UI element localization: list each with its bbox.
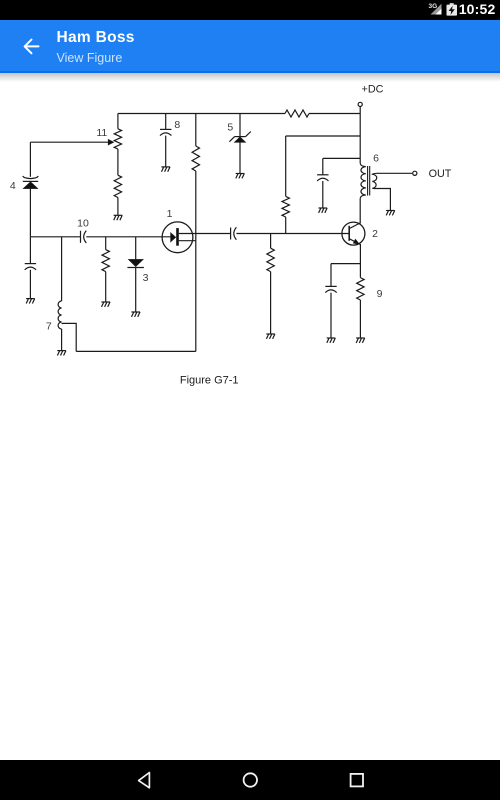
resistor (unlabeled, top rail) (285, 110, 309, 117)
wire top rail left segment (118, 113, 285, 115)
wire bypass cap lead (330, 264, 332, 287)
wire tank cap top lead (322, 158, 324, 174)
wire cap 8 to ground (165, 136, 167, 167)
wire gate line right (86, 236, 171, 238)
capacitor 10 (81, 231, 87, 243)
wire gate line left (30, 236, 80, 238)
ground (tank cap) (319, 208, 328, 213)
ground (pot column) (114, 215, 123, 220)
capacitor (unlabeled, tank) (317, 175, 328, 181)
nav back triangle (139, 773, 150, 788)
transformer 6 primary winding (360, 163, 366, 198)
resistor (unlabeled, source bias) (192, 146, 199, 171)
ground (left column) (26, 299, 35, 304)
wire varactor 4 top lead (29, 142, 31, 177)
wire FET drain lead (179, 233, 231, 235)
wire divider upper bottom lead (285, 217, 287, 234)
wire diode 3 top lead (135, 237, 137, 260)
app bar (0, 20, 500, 72)
resistor (unlabeled, below pot) (114, 175, 121, 197)
resistor (unlabeled, divider upper) (282, 196, 289, 217)
wire FET source lead (179, 240, 196, 242)
wire divider lower to ground (270, 272, 272, 334)
svg-text:1: 1 (167, 208, 173, 220)
wire source column long vertical (195, 171, 197, 351)
node +DC terminal (358, 102, 362, 106)
wire zener 5 to ground (239, 142, 241, 173)
wire cap 8 top lead (165, 114, 167, 130)
node OUT terminal (413, 171, 417, 175)
zener diode 5 (234, 137, 245, 142)
transformer 6 secondary winding (372, 173, 377, 188)
ground (divider lower) (266, 334, 275, 339)
navigation bar (0, 760, 500, 800)
svg-text:11: 11 (96, 127, 107, 139)
svg-text:Figure G7-1: Figure G7-1 (180, 375, 239, 387)
svg-text:6: 6 (373, 153, 379, 165)
wire diode 3 to ground (135, 268, 137, 313)
capacitor (unlabeled, left column) (25, 264, 36, 270)
wire bottom return (76, 350, 196, 352)
wire emitter junction horizontal (331, 263, 360, 265)
ground (resistor 9) (356, 338, 365, 343)
inductor 7 (tapped) (58, 301, 61, 329)
wire bias resistor top lead (105, 237, 107, 250)
svg-text:+DC: +DC (362, 83, 384, 95)
resistor 9 (357, 278, 364, 300)
ground (bypass cap) (327, 338, 336, 343)
wire inductor 7 to ground (61, 329, 63, 351)
ground (cap 8) (161, 167, 170, 172)
wire resistor column top lead (195, 114, 197, 147)
svg-text:9: 9 (377, 288, 383, 300)
wire tank cap top horizontal (323, 157, 360, 159)
wire secondary top to OUT (377, 172, 412, 174)
status bar (0, 0, 500, 20)
potentiometer 11 (114, 129, 121, 149)
wire below pot 11 (117, 149, 119, 175)
svg-text:8: 8 (174, 119, 180, 131)
capacitor 8 (160, 129, 171, 135)
wire divider lower top lead (270, 234, 272, 249)
wire bypass cap to ground (330, 293, 332, 338)
capacitor (unlabeled, coupling) (231, 227, 237, 239)
ground (diode 3) (131, 312, 140, 317)
wire top rail right segment (309, 113, 360, 115)
wire bias resistor to ground (105, 272, 107, 302)
wire collector to primary (359, 198, 361, 222)
wire inductor tap (62, 323, 77, 351)
svg-text:4: 4 (10, 180, 16, 192)
wire resistor 9 to ground (359, 300, 361, 338)
FET U1 transistor 1 (162, 222, 193, 253)
wire cap to ground (left column) (29, 270, 31, 299)
nav home circle (244, 773, 257, 786)
wiper arrow of potentiometer 11 (30, 141, 109, 143)
capacitor (unlabeled, emitter bypass) (325, 286, 336, 292)
ground (gate bias resistor) (101, 302, 110, 307)
wire zener 5 top lead (239, 114, 241, 137)
ground (secondary) (386, 211, 395, 216)
transistor 2 (NPN) (342, 222, 365, 245)
svg-text:7: 7 (46, 321, 52, 333)
svg-text:OUT: OUT (429, 168, 452, 180)
ground (zener 5) (236, 174, 245, 179)
wire emitter vertical (359, 244, 361, 278)
wire pot 11 top lead (117, 114, 119, 129)
svg-text:2: 2 (372, 228, 378, 240)
svg-text:10: 10 (77, 218, 89, 230)
svg-text:5: 5 (227, 121, 233, 133)
resistor (unlabeled, divider lower) (267, 248, 274, 271)
diode 3 (128, 259, 143, 266)
wire tank cap to ground (322, 181, 324, 208)
wire secondary bottom lead (377, 189, 390, 211)
svg-text:3: 3 (143, 272, 149, 284)
battery charging icon (447, 5, 458, 16)
wire coupling cap to base (236, 233, 349, 235)
wire varactor column to cap (29, 237, 31, 264)
transformer 6 core (367, 166, 369, 196)
wire inductor 7 top lead (61, 237, 63, 301)
wire divider top horizontal (286, 135, 361, 137)
wire +DC vertical (359, 107, 361, 164)
wire resistor to ground (117, 198, 119, 216)
back arrow (16, 31, 46, 61)
ground (inductor 7) (57, 351, 66, 356)
resistor (unlabeled, gate bias) (102, 250, 109, 272)
nav recents square (351, 774, 363, 787)
varactor diode 4 (23, 176, 38, 179)
wire varactor 4 bottom lead (29, 189, 31, 237)
wire divider upper lead (285, 136, 287, 196)
